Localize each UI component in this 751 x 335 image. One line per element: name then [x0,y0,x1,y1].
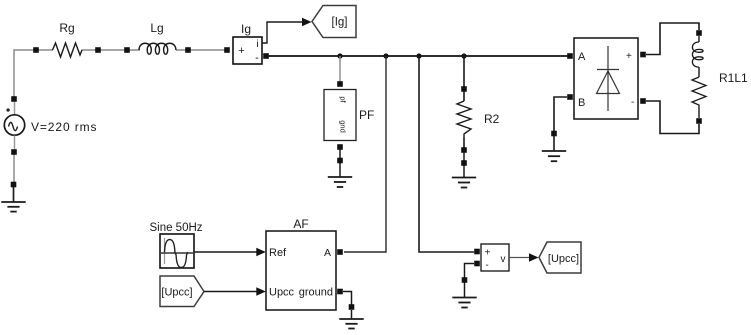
ground under R2 [452,160,476,187]
ground under AC source [1,182,25,212]
ground under bridge B [542,131,566,162]
wire bus to PF block [339,56,341,84]
svg-text:R2: R2 [484,112,500,126]
port - of voltmeter [474,261,480,267]
node at PF branch [337,53,342,58]
svg-text:gnd: gnd [339,120,348,133]
AC voltage source V=220 rms [4,96,97,155]
wire bus down to voltmeter + [419,56,474,252]
resistor R2 [457,56,500,153]
svg-text:B: B [578,97,585,109]
current measurement block Ig [224,22,269,64]
svg-text:v: v [501,254,506,265]
svg-text:pf: pf [339,96,348,103]
svg-text:R1L1: R1L1 [719,71,748,85]
svg-text:ground: ground [299,287,333,299]
resistor Rg [33,21,101,57]
svg-text:A: A [324,247,331,259]
goto tag [Ig] [312,6,356,38]
svg-text:AF: AF [293,217,308,231]
svg-text:V=220 rms: V=220 rms [31,120,97,134]
arrowhead into [Upcc] [529,253,539,261]
signal wire [Upcc] to AF Upcc [204,291,257,293]
bus wire from Ig output to bridge A [266,55,570,57]
pin - [640,98,646,104]
svg-text:Ref: Ref [269,247,287,259]
goto tag [Upcc] [539,242,581,273]
svg-text:Sine 50Hz: Sine 50Hz [149,222,202,234]
wire AF ground port to ground [343,292,352,308]
signal wire Ig to goto tag [Ig] [262,22,302,43]
port Ig output [263,53,269,59]
active filter block AF [266,217,343,310]
pin Lg left [124,47,130,53]
pin R2 top [461,86,467,92]
wire R2 to ground [463,152,465,177]
measurement block PF [324,81,374,150]
resistor R1 [692,77,706,107]
svg-text:+: + [238,45,244,57]
port + of voltmeter [474,249,480,255]
wire Rg to Lg [98,49,127,51]
wire bus down to AF output A [344,56,386,252]
universal bridge rectifier [567,38,646,119]
svg-text:+: + [485,248,491,259]
pin R2 bottom [461,147,467,153]
svg-text:Rg: Rg [59,21,74,35]
pin Rg left [33,47,39,53]
wire voltmeter - to ground [465,264,475,298]
wire bridge + to R1L1 top [646,23,699,55]
wire bridge B to ground [554,97,567,151]
wire PF to ground [339,147,341,177]
port Ig input [224,47,230,53]
svg-text:[Upcc]: [Upcc] [161,287,192,299]
wire AC source bottom to ground [13,152,15,185]
inductor L1 [692,42,703,67]
port ground of AF [337,289,343,295]
arrowhead into Ref [256,248,266,256]
svg-text:Upcc: Upcc [269,287,295,299]
svg-text:i: i [256,39,258,50]
series RL branch R1L1 [692,30,748,124]
signal wire v to goto tag [Upcc] [509,257,529,259]
svg-text:-: - [485,260,488,271]
diode inside bridge [607,46,609,111]
svg-text:[Ig]: [Ig] [332,17,348,29]
svg-text:-: - [631,97,634,108]
pin Rg right [95,47,101,53]
signal wire sine to AF Ref [194,251,257,253]
port PF top [337,81,343,87]
wire R1L1 bottom to bridge - [646,101,699,134]
svg-text:-: - [255,52,259,64]
port PF bottom [337,144,343,150]
pin B [567,94,573,100]
wire Lg to Ig [188,49,227,51]
arrowhead into Upcc [256,287,266,295]
svg-text:+: + [626,51,632,62]
sine source block Sine 50Hz [149,222,202,268]
ground under AF [339,304,363,328]
node at AF branch [383,53,388,58]
svg-text:Lg: Lg [150,21,163,35]
port A of AF [337,249,343,255]
svg-text:Ig: Ig [241,22,251,36]
svg-text:A: A [578,51,586,63]
pin + [640,52,646,58]
wire from AC source up to Rg [14,50,36,100]
svg-text:PF: PF [359,108,374,122]
node at R2 branch [461,53,466,58]
ground under voltmeter [452,277,476,307]
svg-text:[Upcc]: [Upcc] [548,253,579,265]
voltage measurement block v [474,244,509,271]
ground under PF [328,158,352,187]
node at voltmeter branch [416,53,421,58]
inductor Lg [124,21,191,54]
from tag [Upcc] [160,276,204,307]
pin Lg right [185,47,191,53]
pin A [567,53,573,59]
arrowhead into [Ig] [302,18,312,26]
